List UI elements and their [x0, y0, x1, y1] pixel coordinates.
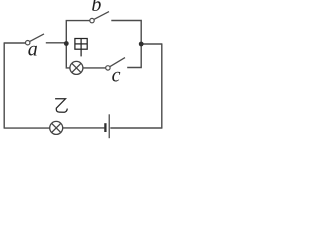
wire: battery to lamp Yi	[63, 127, 105, 129]
label Jia (CJK drawn)	[75, 39, 87, 57]
svg-text:c: c	[112, 65, 121, 87]
svg-text:a: a	[28, 39, 38, 61]
battery cell	[105, 114, 109, 138]
node B (right junction)	[139, 42, 144, 47]
wire: top-left corner to switch a	[4, 42, 25, 44]
svg-text:b: b	[91, 0, 101, 16]
switch b	[90, 12, 109, 23]
wire: lamp Jia to switch c	[83, 67, 106, 69]
wire: switch c to corner and up to node B	[127, 44, 141, 68]
lamp Yi (bulb symbol)	[50, 121, 63, 134]
label Yi (CJK drawn)	[55, 99, 67, 112]
wire: left edge vertical	[3, 42, 5, 128]
node A (left junction)	[64, 41, 69, 46]
switch a	[26, 34, 45, 45]
wire: right edge vertical	[161, 43, 163, 128]
wire: node A up and top branch to switch b	[66, 21, 90, 45]
wire: bottom-left (corner to lamp Yi)	[4, 127, 50, 129]
lamp Jia (bulb symbol)	[70, 61, 83, 74]
wire: node A down to lamp Jia	[66, 42, 70, 68]
switch c	[106, 58, 125, 71]
wire: switch a to node A	[46, 42, 67, 44]
wire: node B to right edge	[141, 43, 162, 45]
wire: switch b to top-right corner and down to node B	[111, 21, 141, 45]
wire: bottom-right (corner to battery)	[110, 127, 162, 129]
battery negative plate (short thick)	[104, 123, 106, 132]
battery positive plate (long thin)	[108, 114, 110, 138]
